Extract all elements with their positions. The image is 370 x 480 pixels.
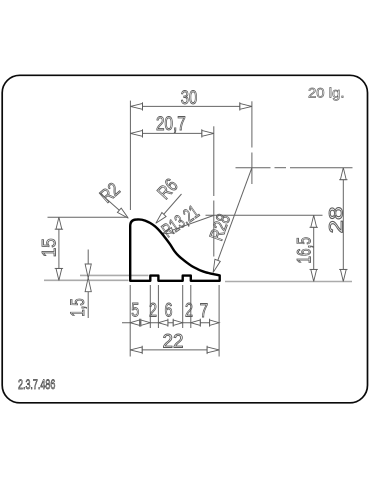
profile outline (extrusion cross-section) <box>130 219 220 280</box>
dimension 20,7: center line right (R13.21 center) <box>213 126 215 196</box>
dimension 15: extension line top <box>48 216 129 218</box>
dimension 22: dimension line <box>130 349 219 351</box>
dimension 7 label <box>200 301 209 322</box>
dimension 20,7: label <box>156 114 186 135</box>
svg-text:2.3.7.486: 2.3.7.486 <box>18 377 55 392</box>
svg-text:R6: R6 <box>154 175 183 204</box>
bottom extension line 6 (x=219.1) <box>218 285 220 357</box>
dimension 20,7: dimension line <box>131 132 214 134</box>
dimension 16,5: dimension line <box>313 215 315 281</box>
datum line bottom right (gray) <box>225 281 352 283</box>
dimension 30: center line right (R28 center) <box>251 101 253 147</box>
leader R13,21 <box>164 215 214 233</box>
svg-text:20,7: 20,7 <box>156 114 186 135</box>
bottom extension line 3 (x=158.4) <box>157 285 159 328</box>
length note 20 lg. <box>308 85 345 100</box>
dimension 15: label <box>40 238 61 257</box>
bottom extension line 5 (x=190.8) <box>190 285 192 328</box>
bottom extension line 1 (x=130.2) <box>129 285 131 357</box>
dimension 30: extension line left <box>129 101 131 210</box>
svg-text:30: 30 <box>181 88 197 109</box>
dimension 30: label <box>181 88 197 109</box>
datum line left notch level (gray) <box>80 274 149 276</box>
svg-text:R2: R2 <box>96 179 124 207</box>
svg-text:15: 15 <box>40 238 61 257</box>
datum line bottom left (gray) <box>44 279 129 281</box>
drawing sheet border <box>2 75 367 403</box>
dimension 28: label <box>327 207 348 234</box>
svg-text:6: 6 <box>165 301 173 322</box>
dimension 5 label <box>131 301 139 322</box>
svg-text:20 lg.: 20 lg. <box>308 85 345 100</box>
dimension 30: dimension line <box>131 105 252 107</box>
svg-text:7: 7 <box>200 301 209 322</box>
svg-text:28: 28 <box>327 207 348 234</box>
svg-text:2: 2 <box>185 301 193 322</box>
leader R2 <box>100 193 127 217</box>
svg-text:2: 2 <box>149 301 157 322</box>
leader R6 <box>158 194 181 221</box>
dimension 16,5: label <box>294 237 315 264</box>
dimension 6 label <box>165 301 173 322</box>
svg-text:16,5: 16,5 <box>294 237 315 264</box>
part number 2.3.7.486 <box>18 377 55 392</box>
dimension 28: dimension line <box>342 168 344 282</box>
R28 center cross and center line <box>236 167 271 169</box>
dimension 1,5: label <box>68 298 89 317</box>
svg-text:22: 22 <box>163 331 184 352</box>
dimension chain 5/2/6/2/7: dimension line <box>122 322 219 324</box>
svg-text:1,5: 1,5 <box>68 298 89 317</box>
dimension 22: label <box>163 331 184 352</box>
dimension 2 label <box>149 301 157 322</box>
dimension 2 label <box>185 301 193 322</box>
svg-text:5: 5 <box>131 301 139 322</box>
bottom extension line 2 (x=150.3) <box>149 285 151 328</box>
R13.21 center line horizontal <box>206 214 323 216</box>
dimension 1,5: leader lines <box>87 250 89 276</box>
bottom extension line 4 (x=182.7) <box>182 285 184 328</box>
dimension 15: dimension line <box>58 217 60 280</box>
leader R28 <box>214 168 252 271</box>
